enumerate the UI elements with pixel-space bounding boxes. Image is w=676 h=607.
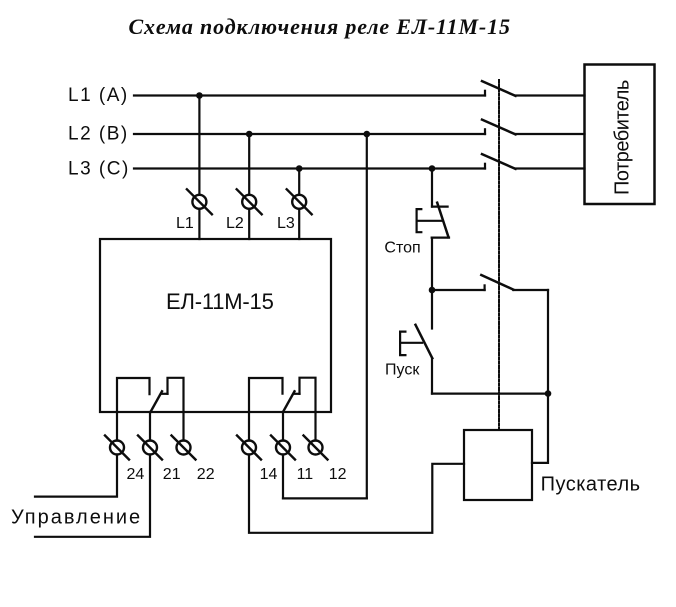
junction node B — [545, 390, 552, 397]
svg-text:24: 24 — [127, 466, 145, 483]
svg-text:Стоп: Стоп — [384, 240, 420, 257]
moving blade — [437, 203, 448, 238]
wire terminal 21 to control lead — [35, 455, 150, 537]
junction L3 bus / L3 terminal drop — [296, 165, 303, 172]
fixed contact tick — [484, 164, 486, 169]
plunger link — [400, 342, 422, 344]
junction L2 bus / starter coil branch — [364, 131, 371, 138]
contact 22 riser and NO fixed contact — [168, 378, 184, 412]
wire L2 branch to terminal 11 — [283, 497, 367, 499]
contactor main contact pole 3 (on L3) — [482, 154, 516, 169]
wire box bottom to terminal 11 — [282, 412, 284, 441]
svg-text:L1: L1 — [176, 215, 194, 232]
wire starter coil to terminal 14 — [249, 455, 464, 533]
wire L2 bus — [134, 133, 485, 135]
wire terminal L1 to relay box — [198, 209, 200, 239]
terminal L1 (plug-in circle with slash) — [187, 189, 212, 214]
terminal L2 (plug-in circle with slash) — [237, 189, 262, 214]
mechanical linkage (dashed) contactor poles to coil — [498, 80, 500, 430]
moving blade — [416, 325, 433, 358]
svg-text:Пускатель: Пускатель — [541, 474, 641, 496]
wire L3 to stop button — [431, 169, 433, 207]
svg-text:22: 22 — [197, 466, 215, 483]
wire box bottom to terminal 24 — [116, 412, 118, 441]
contact blade (common 21) — [151, 391, 163, 412]
svg-text:Потребитель: Потребитель — [612, 80, 634, 195]
svg-text:Схема подключения реле ЕЛ-11М-: Схема подключения реле ЕЛ-11М-15 — [129, 14, 511, 39]
fixed contact tick — [484, 285, 486, 290]
wire L2 branch down (crosses L3 bus) — [366, 134, 368, 498]
wire L1 bus — [134, 94, 485, 96]
blade tip seat link — [294, 393, 299, 395]
wire start button down — [431, 358, 433, 393]
wire L3 bus — [134, 167, 485, 169]
holding contact KM aux (NO) — [481, 275, 513, 290]
wire L1 drop to terminal — [198, 96, 200, 195]
plunger bracket — [400, 332, 405, 356]
wire pole 3 to consumer — [516, 167, 585, 169]
contactor main contact pole 1 (on L1) — [482, 81, 516, 96]
wire box bottom to terminal 22 — [182, 412, 184, 441]
svg-text:L3: L3 — [277, 215, 295, 232]
wire L3 drop to terminal — [298, 169, 300, 195]
wire node A to holding contact — [432, 289, 485, 291]
svg-text:Управление: Управление — [11, 507, 142, 529]
junction L2 bus / L2 terminal drop — [246, 131, 253, 138]
svg-text:14: 14 — [260, 466, 278, 483]
relay box ЕЛ-11М-15 — [100, 239, 331, 412]
wire terminal 24 to control lead — [35, 455, 117, 497]
blade tip seat link — [162, 393, 168, 395]
contact 24 riser and NC fixed contact — [117, 378, 150, 412]
upper fixed contact — [432, 206, 448, 208]
svg-text:L2 (B): L2 (B) — [68, 124, 129, 145]
svg-text:Пуск: Пуск — [385, 361, 420, 378]
wire node B down to starter coil — [532, 394, 548, 463]
wire right branch down to node B — [547, 290, 549, 394]
wire box bottom to terminal 12 — [314, 412, 316, 441]
moving blade — [482, 81, 516, 96]
wire terminal L2 to relay box — [248, 209, 250, 239]
terminal 21 (circle with slash) — [138, 436, 162, 460]
terminal 11 (circle with slash) — [271, 436, 295, 460]
wire start button to node B — [432, 393, 548, 395]
wire pole 1 to consumer — [516, 94, 585, 96]
terminal L3 (plug-in circle with slash) — [287, 189, 312, 214]
wire holding contact to right branch — [513, 289, 548, 291]
junction node A (stop / start / holding contact) — [429, 287, 436, 294]
wire L2 drop to terminal — [248, 134, 250, 195]
moving blade — [481, 275, 513, 290]
starter coil box KM — [464, 430, 532, 500]
junction L3 bus / stop button drop — [429, 165, 436, 172]
fixed contact tick — [484, 91, 486, 96]
terminal 22 (circle with slash) — [172, 436, 196, 460]
wire pole 2 to consumer — [516, 133, 585, 135]
pushbutton Пуск (NO) — [400, 325, 432, 358]
terminal 24 (circle with slash) — [105, 436, 129, 460]
relay output contact K2 (terminals 14-11-12) — [249, 378, 316, 412]
svg-text:12: 12 — [329, 466, 347, 483]
svg-text:L1 (A): L1 (A) — [68, 85, 129, 106]
contact blade (common 11) — [283, 391, 295, 412]
svg-text:ЕЛ-11М-15: ЕЛ-11М-15 — [166, 289, 274, 314]
wire terminal L3 to relay box — [298, 209, 300, 239]
junction L1 bus / L1 terminal drop — [196, 92, 203, 99]
contact 12 riser and NO fixed contact — [300, 378, 316, 412]
relay output contact K1 (terminals 24-21-22) — [117, 378, 184, 412]
contact 14 riser and NC fixed contact — [249, 378, 283, 412]
lower fixed contact — [432, 237, 449, 239]
wire box bottom to terminal 21 — [149, 412, 151, 441]
wire box bottom to terminal 14 — [248, 412, 250, 441]
pushbutton Стоп (NC) — [417, 203, 449, 238]
wire stop button to node A — [431, 238, 433, 290]
terminal 12 (circle with slash) — [304, 436, 328, 460]
moving blade — [482, 154, 516, 169]
wire node A to start button — [431, 290, 433, 329]
moving blade — [482, 120, 516, 135]
svg-text:L3 (C): L3 (C) — [68, 159, 130, 180]
contactor main contact pole 2 (on L2) — [482, 120, 516, 135]
wire up to terminal 11 — [282, 455, 284, 499]
plunger link — [417, 220, 443, 222]
svg-text:21: 21 — [163, 466, 181, 483]
svg-text:11: 11 — [297, 466, 314, 483]
fixed contact tick — [484, 129, 486, 134]
consumer box Потребитель — [585, 65, 655, 205]
svg-text:L2: L2 — [226, 215, 244, 232]
plunger bracket — [417, 209, 422, 232]
terminal 14 (circle with slash) — [237, 436, 261, 460]
